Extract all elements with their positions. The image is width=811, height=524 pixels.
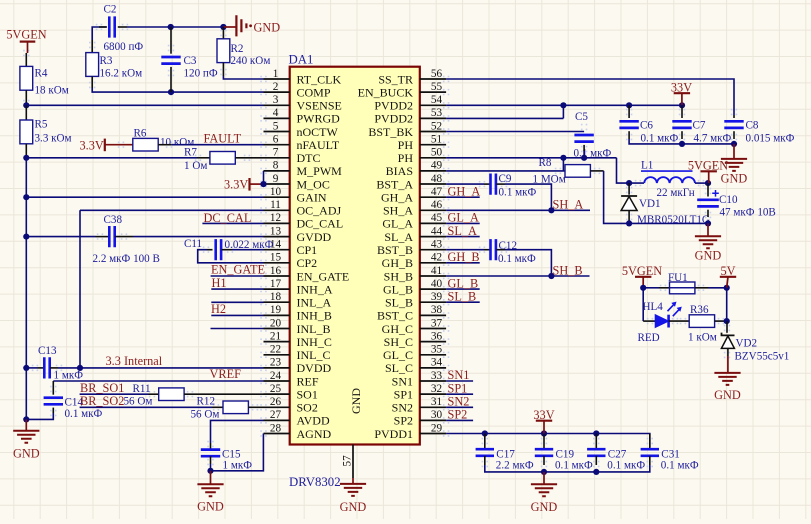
wire pin 11 OC_ADJ xyxy=(80,209,264,211)
wire pin 49 BIAS to R8 xyxy=(446,170,565,172)
svg-text:GH_C: GH_C xyxy=(382,322,413,336)
svg-text:SN1: SN1 xyxy=(392,374,413,388)
wire PH corner down to L1 xyxy=(617,158,645,183)
svg-text:PVDD2: PVDD2 xyxy=(374,99,413,113)
svg-text:54: 54 xyxy=(431,94,443,106)
ground GND top right xyxy=(721,159,747,171)
svg-text:DA1: DA1 xyxy=(289,53,314,67)
op-amp U1: gate driver IC DA1 DRV8302 body xyxy=(290,67,420,445)
wire FU1 to 5V node xyxy=(709,287,727,289)
wire pin 50 PH xyxy=(446,157,616,159)
capacitor C14 top pin stub xyxy=(52,381,54,395)
svg-text:DVDD: DVDD xyxy=(297,361,332,375)
svg-text:0.1 мкФ: 0.1 мкФ xyxy=(499,187,537,199)
svg-text:1: 1 xyxy=(273,68,279,80)
svg-text:45: 45 xyxy=(431,212,443,224)
pin 24 REF line xyxy=(264,380,290,382)
junction C27 top xyxy=(593,430,599,436)
wire OC_ADJ vertical down xyxy=(79,210,81,368)
diode VD1 top pin stub xyxy=(628,183,630,195)
svg-text:R4: R4 xyxy=(35,68,48,80)
svg-text:1 мкФ: 1 мкФ xyxy=(223,460,253,472)
svg-text:FAULT: FAULT xyxy=(204,132,242,146)
wire pin 32 SP1 stub xyxy=(446,393,473,395)
wire pin 16 EN_GATE stub xyxy=(211,275,264,277)
pin 20 INL_B line xyxy=(264,328,290,330)
pin 17 INH_A line xyxy=(264,288,290,290)
junction C7 bottom xyxy=(679,141,685,147)
resistor R5 top pin stub xyxy=(25,105,27,120)
wire pin 47 GH_A stub xyxy=(446,196,480,198)
pin 8 M_PWM line xyxy=(264,170,290,172)
junction VD1 anode/ground rail xyxy=(626,220,632,226)
wire VD2 top pin stub xyxy=(726,321,728,332)
pin 29 PVDD1 line xyxy=(420,433,446,435)
pin 6 nFAULT line xyxy=(264,144,290,146)
pin 57 GND line xyxy=(352,445,354,479)
svg-text:C7: C7 xyxy=(693,120,706,132)
wire pin8 to pin9 tie xyxy=(263,171,265,184)
svg-text:PH: PH xyxy=(398,138,414,152)
pin 39 SL_B line xyxy=(420,301,446,303)
svg-text:SN1: SN1 xyxy=(448,368,470,382)
wire R2 bottom to pin 1 RT_CLK xyxy=(223,76,263,79)
LED HL4 right pin stub xyxy=(669,320,690,322)
svg-text:30: 30 xyxy=(431,409,443,421)
capacitor C38 left pin stub xyxy=(96,236,109,238)
svg-text:AVDD: AVDD xyxy=(297,414,330,428)
pin 27 AVDD line xyxy=(264,419,290,421)
svg-text:8: 8 xyxy=(273,160,279,172)
junction pin9/3.3V xyxy=(260,181,266,187)
svg-text:REF: REF xyxy=(297,374,319,388)
wire 33V port stub (top) xyxy=(681,93,683,105)
wire pin 12 DC_CAL stub xyxy=(202,222,263,224)
LED HL4 left pin stub xyxy=(643,320,655,322)
wire pin 56 SS_TR to C8 xyxy=(446,79,734,115)
resistor R8 xyxy=(565,165,590,178)
capacitor C8 xyxy=(724,121,743,128)
capacitor C2 right pin stub xyxy=(118,26,127,28)
svg-text:34: 34 xyxy=(431,357,443,369)
fuse FU1 right pin stub xyxy=(695,287,709,289)
svg-text:M_PWM: M_PWM xyxy=(297,164,343,178)
svg-text:38: 38 xyxy=(431,304,443,316)
wire pin 48 BST_A to C9 xyxy=(446,183,484,185)
LED HL4 arrows xyxy=(668,303,681,316)
svg-text:R11: R11 xyxy=(133,383,151,395)
resistor R2 bottom pin stub xyxy=(222,63,224,76)
diode VD2 zener BZV55c5v1 xyxy=(722,333,735,336)
junction C7 top / 33V xyxy=(679,102,685,108)
svg-text:SL_B: SL_B xyxy=(448,289,477,303)
capacitor C38 right pin stub xyxy=(115,236,133,238)
wire chain to C38 left xyxy=(26,236,95,238)
wire BR_SO1 to R11 xyxy=(80,393,149,395)
pin 26 SO2 line xyxy=(264,406,290,408)
capacitor C10 (polarized) xyxy=(697,200,719,207)
pin 25 SO1 line xyxy=(264,393,290,395)
power port 5VGEN bar (fuse) xyxy=(635,276,651,278)
capacitor C27 xyxy=(587,449,605,456)
pin 36 SH_C line xyxy=(420,341,446,343)
svg-text:2.2 мкФ 100 В: 2.2 мкФ 100 В xyxy=(93,253,160,265)
svg-text:4: 4 xyxy=(273,107,279,119)
junction L1/5VGEN/C10 xyxy=(705,180,711,186)
svg-text:VREF: VREF xyxy=(210,367,242,381)
fuse FU1 xyxy=(670,282,695,294)
svg-text:L1: L1 xyxy=(641,160,653,172)
svg-text:GH_A: GH_A xyxy=(448,184,481,198)
svg-text:INH_B: INH_B xyxy=(297,309,332,323)
svg-text:12: 12 xyxy=(270,212,281,224)
svg-text:56 Ом: 56 Ом xyxy=(124,396,153,408)
wire pin53 to rail vertical xyxy=(562,105,564,118)
wire pin 40 GL_B stub xyxy=(446,288,480,290)
resistor R11 xyxy=(159,388,184,401)
svg-text:SH_C: SH_C xyxy=(384,335,413,349)
capacitor C8 top pin stub xyxy=(733,115,735,118)
svg-text:EN_GATE: EN_GATE xyxy=(211,262,265,276)
power port 3.3V bar (pin 9) xyxy=(248,178,250,191)
svg-text:R36: R36 xyxy=(690,304,709,316)
resistor R3 top pin stub xyxy=(91,40,93,53)
svg-text:SH_A: SH_A xyxy=(383,204,413,218)
svg-text:INH_C: INH_C xyxy=(297,335,332,349)
svg-text:25: 25 xyxy=(270,383,282,395)
capacitor C27 top pin stub xyxy=(595,434,597,450)
svg-text:0.1 мкФ: 0.1 мкФ xyxy=(65,408,103,420)
svg-text:DC_CAL: DC_CAL xyxy=(297,217,344,231)
wire pin 29 PVDD1 rail xyxy=(446,434,650,448)
svg-text:C2: C2 xyxy=(104,4,117,16)
junction C15/AGND xyxy=(207,468,213,474)
svg-text:GND: GND xyxy=(13,446,40,460)
svg-text:46: 46 xyxy=(431,199,443,211)
resistor R12 xyxy=(223,401,248,414)
wire pin 53 PVDD2 xyxy=(446,117,563,119)
svg-text:C5: C5 xyxy=(575,111,588,123)
wire R6 to pin 6 nFAULT xyxy=(171,144,263,146)
resistor R6 xyxy=(133,138,158,151)
svg-text:27: 27 xyxy=(270,409,282,421)
power port 5VGEN bar (mid) xyxy=(701,170,717,172)
svg-text:22: 22 xyxy=(270,344,281,356)
svg-text:GND: GND xyxy=(254,21,281,35)
capacitor C3 xyxy=(161,57,180,64)
capacitor C11 right pin stub xyxy=(222,249,233,251)
svg-text:H2: H2 xyxy=(211,302,226,316)
wire caps bottom rail xyxy=(485,465,650,472)
pin 31 SN2 line xyxy=(420,406,446,408)
svg-text:C11: C11 xyxy=(184,238,202,250)
svg-text:SP1: SP1 xyxy=(394,387,413,401)
wire 5V stub xyxy=(727,277,728,288)
diode VD1 bottom pin stub xyxy=(628,211,630,224)
svg-text:PVDD2: PVDD2 xyxy=(374,112,413,126)
svg-text:18: 18 xyxy=(270,291,282,303)
wire PH to R8 vertical xyxy=(562,158,564,171)
power port 5V bar xyxy=(720,276,736,278)
wire VD2 to ground xyxy=(727,348,729,356)
wire R2 node to GND port xyxy=(223,26,236,28)
svg-text:AGND: AGND xyxy=(297,427,332,441)
svg-text:52: 52 xyxy=(431,120,442,132)
svg-text:R2: R2 xyxy=(231,43,244,55)
svg-text:0.1 мкФ: 0.1 мкФ xyxy=(498,253,536,265)
power port 5VGEN bar xyxy=(20,40,36,42)
wire pin 46 SH_A xyxy=(446,209,590,211)
svg-text:GH_A: GH_A xyxy=(381,191,413,205)
svg-text:29: 29 xyxy=(431,422,443,434)
junction R4/R5/pin3 xyxy=(23,102,29,108)
resistor R36 right pin stub xyxy=(715,320,727,322)
svg-text:57: 57 xyxy=(342,455,354,467)
capacitor C31 top pin stub xyxy=(649,434,651,450)
wire pin 42 GH_B stub xyxy=(446,262,480,264)
wire BR_SO2 to R12 xyxy=(80,406,212,408)
wire R8 down to ground rail xyxy=(604,171,708,224)
svg-text:GND: GND xyxy=(721,171,748,185)
wire pin 45 GL_A stub xyxy=(446,222,480,224)
capacitor C19 bottom pin stub xyxy=(543,456,545,465)
svg-text:SH_A: SH_A xyxy=(553,198,584,212)
svg-text:R5: R5 xyxy=(35,119,48,131)
wire C11 left down to pin 15 CP2 xyxy=(198,250,264,263)
pin 28 AGND line xyxy=(264,433,290,435)
svg-text:31: 31 xyxy=(431,396,442,408)
svg-text:RED: RED xyxy=(638,332,660,344)
wire 5VGEN node down to HL4 xyxy=(642,288,644,321)
svg-text:VSENSE: VSENSE xyxy=(297,99,342,113)
capacitor C12 right pin stub xyxy=(496,249,505,251)
svg-text:BIAS: BIAS xyxy=(386,164,413,178)
svg-text:GND: GND xyxy=(714,388,741,402)
resistor R4 xyxy=(20,66,33,90)
svg-text:28: 28 xyxy=(270,422,282,434)
wire C2 left to R3 top xyxy=(92,27,107,40)
svg-text:19: 19 xyxy=(270,304,282,316)
wire chain R5 to C38 row xyxy=(25,197,27,236)
svg-text:3.3 кОм: 3.3 кОм xyxy=(35,133,72,145)
wire 5VGEN node to FU1 xyxy=(643,287,659,289)
svg-text:0.015 мкФ: 0.015 мкФ xyxy=(746,133,795,145)
svg-text:21: 21 xyxy=(270,330,281,342)
svg-text:0.1 мкФ: 0.1 мкФ xyxy=(555,460,593,472)
pin 7 DTC line xyxy=(264,157,290,159)
capacitor C17 top pin stub xyxy=(484,434,486,450)
svg-text:DRV8302: DRV8302 xyxy=(289,475,341,489)
capacitor C8 bottom pin stub xyxy=(733,131,735,139)
capacitor C9 xyxy=(491,174,496,195)
resistor R12 right pin stub xyxy=(248,406,263,408)
svg-text:BST_C: BST_C xyxy=(377,309,413,323)
fuse FU1 left pin stub xyxy=(659,287,670,289)
wire chain below R5 xyxy=(25,155,27,158)
wire chain to pin 10 GAIN xyxy=(26,158,263,197)
svg-text:SP1: SP1 xyxy=(448,381,468,395)
svg-text:15: 15 xyxy=(270,252,282,264)
pin 42 GH_B line xyxy=(420,262,446,264)
wire caps rail to ground xyxy=(543,472,545,484)
svg-text:R8: R8 xyxy=(539,157,552,169)
wire 5VGEN port stub xyxy=(27,42,29,53)
pin 5 nOCTW line xyxy=(264,131,290,133)
svg-text:26: 26 xyxy=(270,396,282,408)
pin 55 EN_BUCK line xyxy=(420,91,446,93)
pin 54 PVDD2 line xyxy=(420,104,446,106)
pin 37 GH_C line xyxy=(420,328,446,330)
svg-text:0.1 мкФ: 0.1 мкФ xyxy=(661,460,699,472)
junction pin53 vertical/rail xyxy=(560,102,566,108)
svg-text:56 Ом: 56 Ом xyxy=(191,409,220,421)
svg-text:EN_BUCK: EN_BUCK xyxy=(358,85,414,99)
capacitor C17 xyxy=(476,449,494,456)
pin 46 SH_A line xyxy=(420,209,446,211)
pin 9 M_OC line xyxy=(264,183,290,185)
svg-text:17: 17 xyxy=(270,278,282,290)
svg-text:53: 53 xyxy=(431,107,443,119)
capacitor C10 top pin stub xyxy=(707,183,709,196)
svg-text:R6: R6 xyxy=(134,128,147,140)
wire pin 39 SL_B stub xyxy=(446,301,480,303)
pin 19 INH_B line xyxy=(264,314,290,316)
svg-text:18 кОм: 18 кОм xyxy=(35,85,69,97)
capacitor C7 bottom pin stub xyxy=(681,131,683,139)
svg-text:CP1: CP1 xyxy=(297,243,318,257)
wire C11 to pin 14 CP1 xyxy=(232,249,264,251)
capacitor C6 xyxy=(619,121,638,128)
svg-text:42: 42 xyxy=(431,252,442,264)
capacitor C11 xyxy=(216,239,221,260)
svg-text:24: 24 xyxy=(270,370,282,382)
svg-text:GL_A: GL_A xyxy=(382,217,413,231)
junction OC_ADJ vertical/DVDD row xyxy=(77,365,83,371)
wire chain to ground xyxy=(25,419,27,430)
svg-text:120 пФ: 120 пФ xyxy=(184,68,218,80)
svg-text:GND: GND xyxy=(531,500,558,514)
svg-text:R7: R7 xyxy=(184,147,197,159)
pin 51 PH line xyxy=(420,144,446,146)
inductor L1 top line xyxy=(641,170,693,172)
svg-text:DTC: DTC xyxy=(297,151,321,165)
pin 4 PWRGD line xyxy=(264,117,290,119)
svg-text:SO2: SO2 xyxy=(297,401,318,415)
svg-text:SN2: SN2 xyxy=(448,395,470,409)
capacitor C7 top pin stub xyxy=(681,105,683,118)
junction C19 top / 33V xyxy=(541,430,547,436)
resistor R11 left pin stub xyxy=(149,393,159,395)
wire AGND node to ground xyxy=(210,471,212,484)
power port 33V bar (bottom) xyxy=(536,420,552,422)
svg-text:37: 37 xyxy=(431,317,443,329)
svg-text:SL_B: SL_B xyxy=(385,296,413,310)
capacitor C2 left pin stub xyxy=(99,26,106,28)
svg-text:7: 7 xyxy=(273,147,279,159)
svg-text:47 мкФ 10В: 47 мкФ 10В xyxy=(720,207,776,219)
pin 35 GL_C line xyxy=(420,354,446,356)
svg-text:GL_A: GL_A xyxy=(448,211,480,225)
capacitor C3 top pin stub xyxy=(170,27,172,54)
svg-text:C10: C10 xyxy=(719,194,738,206)
junction C9/SH_A xyxy=(548,207,554,213)
junction R2 top xyxy=(220,24,226,30)
svg-text:R3: R3 xyxy=(100,55,113,67)
svg-text:C13: C13 xyxy=(38,345,57,357)
wire pin 44 SL_A stub xyxy=(446,236,480,238)
wire L1 to 5VGEN node xyxy=(695,182,708,184)
svg-text:C38: C38 xyxy=(104,214,123,226)
wire chain C13 row to GND corner xyxy=(25,368,27,420)
wire pin 24 REF (VREF) xyxy=(53,380,263,382)
pin 38 BST_C line xyxy=(420,314,446,316)
capacitor C13 right pin stub xyxy=(50,367,58,369)
resistor R7 xyxy=(210,152,235,165)
wire pin 27 AVDD to C15 xyxy=(211,420,264,443)
wire pin 19 INH_B stub xyxy=(211,314,263,316)
svg-text:GND: GND xyxy=(695,249,722,263)
svg-text:GL_B: GL_B xyxy=(448,276,479,290)
svg-text:43: 43 xyxy=(431,239,443,251)
pin 12 DC_CAL line xyxy=(264,222,290,224)
wire 33V stub (bottom) xyxy=(543,421,545,434)
junction C3 bottom on pin2 wire xyxy=(168,89,174,95)
capacitor C5 bottom pin stub xyxy=(583,145,585,151)
pin 56 SS_TR line xyxy=(420,78,446,80)
pin 34 SL_C line xyxy=(420,367,446,369)
resistor R12 left pin stub xyxy=(212,406,223,408)
wire pin 31 SN2 stub xyxy=(446,406,473,408)
resistor R11 right pin stub xyxy=(184,393,263,395)
svg-text:SL_A: SL_A xyxy=(448,224,477,238)
svg-text:48: 48 xyxy=(431,173,443,185)
resistor R5 bottom pin stub xyxy=(25,144,27,155)
svg-text:C8: C8 xyxy=(746,120,759,132)
svg-text:SL_C: SL_C xyxy=(385,361,413,375)
svg-text:3.3V: 3.3V xyxy=(224,178,248,192)
svg-text:2: 2 xyxy=(273,81,279,93)
svg-text:SL_A: SL_A xyxy=(384,230,413,244)
svg-text:GND: GND xyxy=(197,500,224,514)
junction chain/R7 row xyxy=(23,155,29,161)
capacitor C6 top pin stub xyxy=(628,105,630,118)
capacitor C7 xyxy=(672,121,691,128)
junction C17 top xyxy=(482,430,488,436)
junction 5VGEN/FU1/HL4 xyxy=(640,285,646,291)
pin 13 GVDD line xyxy=(264,236,290,238)
svg-text:35: 35 xyxy=(431,344,443,356)
svg-text:INH_A: INH_A xyxy=(297,282,333,296)
wire C5 bottom to PH rail xyxy=(583,151,585,158)
svg-text:5VGEN: 5VGEN xyxy=(6,28,46,42)
ground GND under pin 57 xyxy=(340,484,366,496)
ground GND under VD2 xyxy=(714,373,740,385)
svg-text:33: 33 xyxy=(431,370,443,382)
svg-text:GAIN: GAIN xyxy=(297,191,327,205)
svg-text:23: 23 xyxy=(270,357,282,369)
resistor R3 xyxy=(86,53,99,77)
inductor L1 xyxy=(644,177,695,183)
capacitor C15 bottom pin stub xyxy=(210,456,212,464)
capacitor C9 right pin stub xyxy=(496,183,505,185)
svg-text:49: 49 xyxy=(431,160,443,172)
diode VD1 MBR0520LT1G xyxy=(621,195,637,197)
pin 14 CP1 line xyxy=(264,249,290,251)
pin 1 RT_CLK line xyxy=(264,78,290,80)
resistor R3 bottom pin stub xyxy=(91,76,93,88)
junction VD1 top xyxy=(626,180,632,186)
svg-text:VD2: VD2 xyxy=(736,338,758,350)
